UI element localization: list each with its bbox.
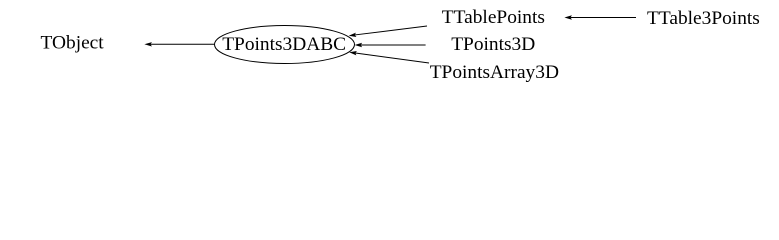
- svg-text:TPoints3DABC: TPoints3DABC: [222, 34, 346, 55]
- node TPoints3DABC ellipse: [215, 26, 355, 64]
- wire arrow TTable3Points to TTablePoints: [564, 15, 636, 19]
- svg-text:TObject: TObject: [41, 33, 105, 54]
- svg-text:TPointsArray3D: TPointsArray3D: [430, 62, 559, 83]
- wire arrow TTablePoints to TPoints3DABC: [349, 26, 427, 37]
- svg-text:TTable3Points: TTable3Points: [647, 8, 760, 29]
- wire arrow TPointsArray3D to TPoints3DABC: [349, 51, 429, 63]
- class hierarchy diagram: [0, 0, 779, 90]
- svg-text:TTablePoints: TTablePoints: [442, 7, 545, 28]
- wire arrow TPoints3DABC to TObject: [144, 42, 214, 46]
- wire arrow TPoints3D to TPoints3DABC: [355, 43, 426, 47]
- svg-text:TPoints3D: TPoints3D: [451, 34, 535, 55]
